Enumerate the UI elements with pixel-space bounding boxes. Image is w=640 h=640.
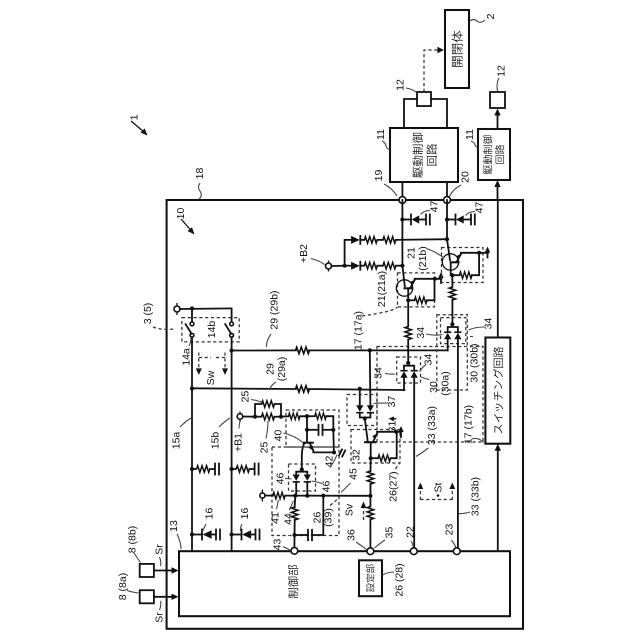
label 43 <box>271 539 290 551</box>
svg-text:21(21a): 21(21a) <box>376 271 388 307</box>
transistor 21 (21b) <box>442 239 488 278</box>
bus 15b vertical <box>231 351 233 552</box>
label 2 <box>470 13 497 22</box>
setting unit box 設定部 26 (28) <box>359 560 382 596</box>
svg-text:(30a): (30a) <box>439 371 451 396</box>
svg-text:33 (33a): 33 (33a) <box>426 406 438 445</box>
svg-text:34: 34 <box>415 327 427 339</box>
parallel resistor pair 25 <box>255 401 283 420</box>
wire 45 horizontal with resistor 41 <box>265 492 370 499</box>
svg-text:35: 35 <box>383 527 395 539</box>
svg-text:+B1: +B1 <box>232 433 244 452</box>
node 19 terminal circle <box>399 197 406 204</box>
node 20 wire from box 11 <box>446 182 448 197</box>
label -30 (30b) <box>468 337 480 383</box>
svg-text:16: 16 <box>239 508 251 520</box>
svg-text:18: 18 <box>194 168 206 180</box>
svg-text:+B2: +B2 <box>298 244 310 263</box>
dashed box 26(39) outer <box>272 447 339 536</box>
label 22 <box>404 526 416 547</box>
stub arrow at 21a emitter <box>438 272 443 283</box>
svg-text:20: 20 <box>459 171 471 183</box>
svg-text:11: 11 <box>464 129 476 140</box>
svg-text:26 (28): 26 (28) <box>393 563 405 596</box>
RC snubber on 15b: resistor + capacitor <box>230 464 259 475</box>
wire box11 to box12 right <box>431 99 447 128</box>
bus 15a vertical <box>191 388 193 551</box>
+B2 feed wire and junction <box>332 265 345 267</box>
svg-text:10: 10 <box>175 208 187 220</box>
capacitor 39 branch <box>295 496 324 541</box>
svg-text:(29a): (29a) <box>276 357 288 382</box>
drive control circuit box 11 (#2) 駆動制御回路 <box>478 129 510 180</box>
dashed box 40 <box>286 410 339 447</box>
terminal 3(5) circle with tick <box>176 303 178 315</box>
label 8 (8a) <box>117 573 139 600</box>
stub arrow at 21b emitter <box>485 247 490 258</box>
label 16 on 15b <box>239 508 251 531</box>
label Sr lower <box>153 601 165 623</box>
upper branch: diode + 2 resistors to node-20 bus <box>345 236 447 266</box>
chain resistors to node <box>281 413 333 430</box>
connector box 12 (#2) <box>490 92 505 108</box>
svg-text:25: 25 <box>258 442 270 454</box>
svg-text:2: 2 <box>485 13 497 19</box>
svg-text:Sr: Sr <box>153 612 165 623</box>
diode pair 34 (unit 30a) <box>400 361 417 551</box>
wire 29 (29b) horizontal <box>232 349 296 351</box>
+B1 terminal circle <box>239 412 241 423</box>
label 29 (29a) <box>264 357 288 389</box>
arrow wire control box to switching circuit bottom <box>497 447 499 549</box>
label 34 right of 30b <box>469 318 495 330</box>
dashed box 32 <box>351 430 400 464</box>
transistor 40 <box>302 430 336 470</box>
label 26 (39) <box>311 500 337 527</box>
svg-text:8 (8b): 8 (8b) <box>126 526 138 553</box>
label +B1 <box>232 422 244 452</box>
label 31 with arrow leader <box>386 416 398 432</box>
svg-text:23: 23 <box>443 524 455 536</box>
label 21(21a) <box>376 271 388 307</box>
svg-text:34: 34 <box>482 318 494 330</box>
svg-text:Sw: Sw <box>205 370 217 385</box>
node 43 circle <box>291 547 298 554</box>
diode-cap clamp 47 on node-20 bus <box>445 200 475 239</box>
label 25 upper <box>239 391 262 403</box>
label 1 with arrow <box>128 114 147 135</box>
svg-text:40: 40 <box>272 430 284 442</box>
arrow wire box11#2 top to box12#2 <box>497 112 499 129</box>
label 35 <box>375 527 396 548</box>
diode pair 34 (unit 30b) <box>444 322 461 551</box>
dashed box 46 <box>289 464 316 491</box>
label 36 <box>345 529 366 549</box>
svg-text:36: 36 <box>345 529 357 541</box>
label 37 (right of box) <box>374 396 398 408</box>
label Sr upper <box>153 544 165 566</box>
wire box11 to box12 left <box>404 99 417 128</box>
label 15b <box>209 418 230 449</box>
Sr arrow upper <box>154 570 175 572</box>
sensor box 8 (8b) <box>140 564 154 577</box>
Sv dashed arrow <box>343 502 366 521</box>
dashed box 34 (in 30b) <box>441 318 466 344</box>
svg-text:St: St <box>432 482 444 492</box>
cap branch with capacitor <box>305 416 336 452</box>
diode16 + cap on 15b <box>230 530 260 540</box>
dashed box 34 (unit 30a) <box>397 357 421 383</box>
dashed box 30 (30b) outer <box>437 315 468 390</box>
sensor box 8 (8a) <box>140 590 154 603</box>
svg-text:3 (5): 3 (5) <box>142 303 154 325</box>
svg-text:46: 46 <box>274 473 286 485</box>
label 11 (#1) <box>375 129 390 150</box>
diode pair 46 <box>293 467 311 495</box>
RC snubber on 15a: resistor + capacitor <box>190 464 219 475</box>
+B2 terminal circle <box>328 261 330 272</box>
arrow wire from top edge up into drive box #2 <box>497 183 499 200</box>
svg-text:45: 45 <box>347 468 359 480</box>
label 25 lower <box>258 421 270 453</box>
label 20 <box>449 171 471 197</box>
lower branch: diode + 2 resistors to node-19 bus <box>345 262 403 270</box>
label 11 (#2) <box>464 129 478 148</box>
switching circuit box スイッチング回路 <box>485 338 510 444</box>
label 29 (29b) <box>266 290 280 347</box>
svg-text:44: 44 <box>282 513 294 525</box>
label 26 (28) <box>383 563 406 596</box>
node 23 circle <box>453 548 460 555</box>
svg-text:30: 30 <box>428 381 440 393</box>
svg-text:1: 1 <box>128 114 140 120</box>
diode-cap clamp 47 on node-19 bus <box>400 200 430 266</box>
node 20 terminal circle <box>444 197 451 204</box>
21a collector chain down with resistor <box>405 300 412 363</box>
svg-text:30 (30b): 30 (30b) <box>468 343 480 382</box>
label 8 (8b) <box>126 526 140 563</box>
label 12 (#2) <box>495 65 507 91</box>
svg-text:15a: 15a <box>170 432 182 450</box>
dashed box 21(21b) <box>442 248 484 283</box>
label 21 / (21b) <box>405 246 444 271</box>
svg-text:29: 29 <box>264 363 276 375</box>
svg-text:17 (17a): 17 (17a) <box>352 311 364 350</box>
node junction on 15a top <box>190 306 194 310</box>
label 10 with arrow <box>175 208 195 235</box>
drop from 29a to diode 37 left <box>359 389 361 405</box>
label 3 (5) <box>142 303 176 330</box>
svg-text:22: 22 <box>404 526 416 538</box>
box 2: 開閉体 (opening/closing body) <box>445 10 469 88</box>
label 40 <box>272 430 302 442</box>
control unit box 13 制御部 <box>179 551 510 616</box>
svg-text:12: 12 <box>394 79 406 91</box>
dashed box 21(21a) <box>398 273 435 307</box>
dashed box 37 <box>347 395 377 426</box>
label 17 (17b) <box>462 405 484 444</box>
dashed signal line from 12 to 開閉体 with arrow <box>424 50 439 92</box>
label 15a <box>170 418 191 449</box>
diode16 + cap on 15a <box>190 530 220 540</box>
label 33 (33b) <box>459 477 482 516</box>
connector box 12 (#1) <box>417 92 431 106</box>
label 34 left of 30a <box>372 367 395 379</box>
terminal circle 41 <box>261 490 263 502</box>
switch 14a <box>186 308 194 388</box>
wire from top edge down to switching circuit <box>497 201 499 338</box>
svg-text:47: 47 <box>473 202 485 214</box>
wire +B1 to divider <box>243 416 255 418</box>
node 22 circle <box>410 548 417 555</box>
label +B2 <box>298 244 325 265</box>
label 33 (33a) <box>416 406 438 457</box>
label 41 <box>269 500 281 524</box>
label 34 right of 30a <box>420 354 435 372</box>
svg-text:34: 34 <box>422 354 434 366</box>
label 30 (30a) <box>421 371 451 396</box>
label 47 (#2) <box>466 202 486 216</box>
label 14a <box>180 338 192 366</box>
svg-text:32: 32 <box>350 449 362 461</box>
label 42 <box>323 455 337 468</box>
resistor 44 vertical <box>291 496 298 548</box>
stub arrow at 31 emitter wire <box>398 426 403 437</box>
svg-text:19: 19 <box>373 170 385 182</box>
sense line 35/36 down from transistor 31 <box>367 458 374 551</box>
svg-text:15b: 15b <box>209 432 221 450</box>
svg-text:25: 25 <box>239 391 251 403</box>
label 13 <box>168 520 181 549</box>
label 46 left <box>274 473 291 485</box>
svg-text:14b: 14b <box>206 321 218 339</box>
drop from 29b to diode 37 right <box>369 350 372 405</box>
tick marks at end of 40 emitter wire <box>339 450 345 457</box>
svg-text:11: 11 <box>375 129 387 140</box>
label 44 <box>282 501 294 525</box>
svg-text:41: 41 <box>269 512 281 524</box>
node 19 wire from box 11 <box>401 182 403 197</box>
svg-text:21: 21 <box>405 247 417 259</box>
label 18 <box>194 168 206 199</box>
St dashed arrows <box>418 482 456 500</box>
label 26(27) with dashed leader <box>387 464 399 502</box>
label 46 right <box>312 481 333 493</box>
dashed box 14 <box>182 318 239 342</box>
svg-text:29 (29b): 29 (29b) <box>268 290 280 329</box>
label 45 <box>341 468 359 492</box>
svg-text:13: 13 <box>168 520 180 532</box>
svg-text:14a: 14a <box>180 348 192 366</box>
Sw dashed arrows <box>196 353 228 386</box>
svg-text:(39): (39) <box>322 508 334 527</box>
label 34 left of 30b <box>415 327 443 339</box>
svg-text:47: 47 <box>428 201 440 213</box>
svg-text:43: 43 <box>271 539 283 551</box>
svg-text:26(27): 26(27) <box>387 471 399 501</box>
label 16 on 15a <box>203 508 216 531</box>
svg-text:8 (8a): 8 (8a) <box>117 573 129 600</box>
svg-text:37: 37 <box>386 396 398 408</box>
switch 14b <box>225 308 233 350</box>
svg-text:(21b): (21b) <box>417 246 429 271</box>
svg-text:16: 16 <box>203 508 215 520</box>
svg-text:46: 46 <box>320 481 332 493</box>
Sr arrow lower <box>154 596 175 598</box>
label 47 (#1) <box>421 201 441 215</box>
diode pair 37 <box>356 405 374 420</box>
svg-text:Sr: Sr <box>153 544 165 555</box>
svg-text:12: 12 <box>495 65 507 77</box>
transistor 31 <box>364 419 401 462</box>
label 19 <box>373 170 397 196</box>
node 35 circle <box>367 548 374 555</box>
svg-text:Sv: Sv <box>343 503 355 516</box>
dashed box 17(17b) <box>377 347 483 443</box>
svg-text:17 (17b): 17 (17b) <box>462 405 474 444</box>
svg-text:33 (33b): 33 (33b) <box>469 477 481 516</box>
label 17 (17a) with dashed leader <box>352 307 397 350</box>
outer box 18 (component unit 10) <box>167 200 523 629</box>
wire 29 (29a) horizontal <box>192 387 296 390</box>
transistor 21 (21a) <box>396 266 441 304</box>
label 12 (#1) <box>394 79 416 92</box>
21b collector chain down with resistor <box>449 275 456 324</box>
label 23 <box>443 524 456 548</box>
drive control circuit box 11 (#1) 駆動制御回路 <box>390 128 458 182</box>
wire terminal to switches <box>180 307 232 310</box>
svg-text:34: 34 <box>372 367 384 379</box>
